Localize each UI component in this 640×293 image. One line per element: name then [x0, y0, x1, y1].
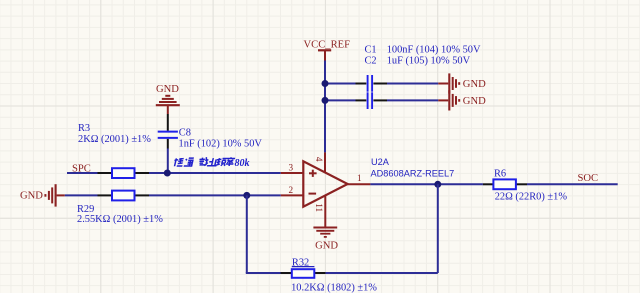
svg-text:GND: GND: [156, 84, 179, 95]
wire output: [370, 183, 483, 185]
wire to SOC: [527, 183, 618, 185]
junction on rail row1: [322, 80, 329, 87]
svg-text:1nF (102) 10% 50V: 1nF (102) 10% 50V: [179, 139, 263, 150]
resistor R6 pins: [483, 183, 527, 185]
power port GND above C8: [156, 96, 180, 114]
pin 4: [324, 152, 326, 172]
capacitor C8 bottom pin: [167, 139, 169, 149]
pin 1 output: [348, 183, 371, 185]
power port VCC_REF: [318, 50, 331, 60]
svg-text:C2: C2: [365, 55, 377, 66]
resistor R3 pins: [98, 172, 150, 174]
svg-text:2.55KΩ (2001) ±1%: 2.55KΩ (2001) ±1%: [77, 214, 163, 225]
op-amp plus: [309, 170, 317, 177]
svg-text:C1: C1: [365, 45, 377, 56]
svg-text:80k: 80k: [235, 158, 250, 169]
glyph di: [173, 158, 184, 166]
capacitor C2 pins: [356, 99, 388, 101]
capacitor C1 pins: [356, 83, 388, 85]
capacitor C8 plates: [158, 132, 178, 138]
wire R3 to pin3: [149, 172, 281, 174]
wire C2 row: [325, 99, 438, 101]
capacitor C8 top pin: [167, 114, 169, 131]
annotation low-pass cutoff (CJK hand-drawn): [173, 157, 235, 166]
glyph lv: [225, 157, 236, 166]
capacitor C2 plates: [368, 92, 373, 109]
svg-text:U2A: U2A: [371, 157, 390, 167]
power port GND right top: [438, 73, 459, 93]
op-amp minus: [309, 193, 317, 195]
svg-text:R3: R3: [78, 123, 90, 134]
resistor R32 body: [292, 269, 315, 278]
glyph jie: [198, 157, 209, 166]
wire GND row: [65, 194, 98, 196]
svg-text:1uF (105) 10% 50V: 1uF (105) 10% 50V: [387, 55, 471, 66]
svg-text:GND: GND: [315, 240, 338, 251]
pin 3: [281, 172, 304, 174]
svg-text:SOC: SOC: [578, 173, 599, 184]
pin 2: [281, 194, 304, 196]
svg-text:R6: R6: [494, 169, 506, 180]
svg-text:11: 11: [314, 203, 324, 212]
wire vertical VCC_REF rail: [324, 61, 326, 153]
junction feedback tap: [243, 192, 250, 199]
svg-text:22Ω (22R0) ±1%: 22Ω (22R0) ±1%: [495, 191, 568, 202]
resistor R29 pins: [98, 194, 150, 196]
svg-text:2: 2: [289, 185, 294, 195]
svg-text:R32: R32: [292, 258, 309, 269]
wire R29 to pin2: [149, 194, 281, 196]
glyph pin: [215, 158, 226, 166]
wire C8 to node: [167, 149, 169, 174]
svg-text:2KΩ (2001) ±1%: 2KΩ (2001) ±1%: [78, 134, 151, 145]
op-amp U2A body: [303, 161, 347, 206]
power port GND below op-amp: [313, 228, 337, 237]
svg-text:10.2KΩ (1802) ±1%: 10.2KΩ (1802) ±1%: [291, 282, 377, 293]
svg-text:GND: GND: [463, 79, 486, 90]
svg-text:1: 1: [357, 173, 362, 183]
wire feedback right vertical: [437, 184, 439, 273]
power port GND left: [45, 184, 64, 206]
wire C1 row: [325, 83, 438, 85]
svg-text:VCC_REF: VCC_REF: [304, 40, 351, 51]
svg-text:100nF (104) 10% 50V: 100nF (104) 10% 50V: [387, 45, 481, 56]
svg-text:AD8608ARZ-REEL7: AD8608ARZ-REEL7: [371, 169, 455, 179]
glyph tong: [184, 158, 194, 166]
glyph zhi: [207, 158, 218, 166]
svg-text:4: 4: [314, 157, 324, 162]
junction node C8/SPC: [164, 170, 171, 177]
junction on rail row2: [322, 97, 329, 104]
svg-text:3: 3: [289, 163, 294, 173]
wire feedback bottom right: [326, 272, 438, 274]
wire feedback left vertical: [246, 195, 248, 273]
svg-text:GND: GND: [20, 190, 43, 201]
pin 11: [324, 195, 326, 227]
svg-text:C8: C8: [179, 127, 191, 138]
junction output/feedback: [434, 181, 441, 188]
wire feedback bottom left: [246, 272, 281, 274]
resistor R6 body: [493, 179, 516, 189]
designator R32 underline: [292, 266, 315, 268]
power port GND right bottom: [438, 90, 459, 110]
resistor R29 body: [112, 191, 135, 201]
wire SPC: [67, 172, 98, 174]
resistor R3 body: [112, 168, 135, 178]
capacitor C1 plates: [368, 75, 373, 92]
svg-text:GND: GND: [463, 96, 486, 107]
resistor R32 pins: [281, 272, 326, 274]
